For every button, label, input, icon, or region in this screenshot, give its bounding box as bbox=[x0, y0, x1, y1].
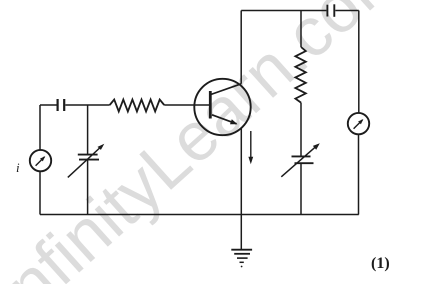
wire junction stem bbox=[87, 105, 89, 155]
wire resistor to variable capacitor bbox=[300, 103, 302, 156]
wire base lead bbox=[164, 104, 209, 106]
svg-text:(1): (1) bbox=[371, 255, 390, 272]
meter M1 bbox=[30, 150, 51, 171]
wire top-left horizontal bbox=[40, 104, 57, 106]
wire capacitor to resistor bbox=[65, 104, 109, 106]
wire left vertical upper bbox=[39, 105, 41, 150]
top rail wire right bbox=[335, 10, 359, 12]
transistor Q1 bbox=[194, 79, 250, 135]
variable capacitor C3 bbox=[281, 143, 320, 177]
svg-text:InfinityLearn.com: InfinityLearn.com bbox=[0, 0, 419, 284]
wire middle branch lower bbox=[300, 163, 302, 214]
wire varcap to bottom rail bbox=[87, 160, 89, 215]
wire emitter down bbox=[240, 128, 242, 215]
wire collector to top rail bbox=[240, 11, 242, 84]
wire left vertical lower bbox=[39, 171, 41, 214]
capacitor C1 bbox=[58, 99, 65, 111]
bottom rail wire bbox=[40, 214, 359, 216]
wire middle branch upper bbox=[300, 11, 302, 48]
top rail wire left bbox=[241, 10, 326, 12]
resistor R1 bbox=[110, 100, 165, 112]
wire right branch lower bbox=[358, 134, 360, 214]
svg-text:i: i bbox=[16, 160, 20, 175]
current arrow bbox=[248, 131, 253, 164]
resistor R2 bbox=[295, 47, 305, 103]
meter M2 bbox=[348, 113, 369, 134]
variable capacitor C2 bbox=[68, 144, 105, 178]
ground bbox=[231, 215, 252, 268]
wire right branch upper bbox=[358, 11, 360, 113]
battery B1 bbox=[327, 4, 334, 16]
